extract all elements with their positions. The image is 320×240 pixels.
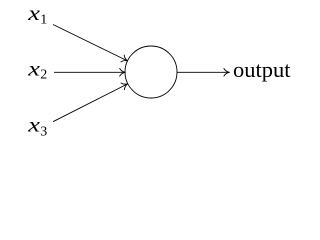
input label x2 <box>27 58 47 83</box>
output wire <box>177 69 230 77</box>
svg-text:3: 3 <box>40 125 47 140</box>
svg-text:x: x <box>27 58 40 81</box>
wire x2 to neuron <box>54 69 125 77</box>
output label <box>233 57 291 82</box>
svg-text:output: output <box>233 57 291 82</box>
svg-text:2: 2 <box>40 68 47 83</box>
svg-text:x: x <box>27 114 40 137</box>
neuron body (circle) <box>125 46 177 98</box>
input label x1 <box>27 2 47 27</box>
input label x3 <box>27 114 47 140</box>
svg-text:x: x <box>27 2 40 25</box>
wire x3 to neuron <box>53 80 129 121</box>
wire x1 to neuron <box>53 25 129 65</box>
svg-text:1: 1 <box>40 13 47 28</box>
